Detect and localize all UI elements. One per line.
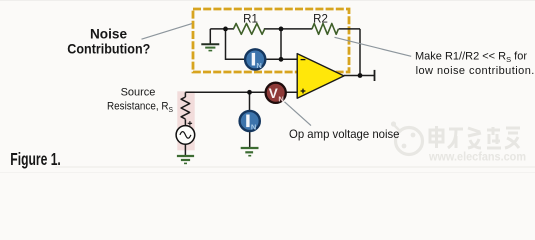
wire ground stub G1 xyxy=(209,29,211,44)
wire inverting branch left down to IN xyxy=(226,29,247,59)
wire non-inverting rail xyxy=(185,91,297,93)
leader line to box xyxy=(142,24,193,40)
ground under source xyxy=(177,156,194,163)
svg-text:Resistance, RS: Resistance, RS xyxy=(107,101,173,115)
wire R2 right to feedback corner xyxy=(339,28,360,30)
wire Rs bottom lead xyxy=(184,119,186,126)
wire IN2 branch down xyxy=(249,92,251,111)
svg-text:Make R1//R2 << RS for: Make R1//R2 << RS for xyxy=(415,51,527,65)
dashed annotation box xyxy=(193,9,349,72)
node junction dots xyxy=(223,27,362,95)
svg-text:N: N xyxy=(251,123,256,132)
svg-text:Figure 1.: Figure 1. xyxy=(10,149,61,169)
wire source ground stub xyxy=(184,144,186,156)
ground G1 xyxy=(201,44,219,50)
svg-text:R2: R2 xyxy=(313,14,328,26)
watermark chinese title 电子发烧友 xyxy=(430,126,520,148)
wire IN2 ground stub xyxy=(249,131,251,148)
watermark logo circle xyxy=(394,125,423,155)
wire op-amp output xyxy=(344,75,375,77)
wire R1 right to R2 left xyxy=(264,28,312,30)
node J2 between R1 R2 xyxy=(279,27,284,32)
source VS circle xyxy=(176,126,195,145)
svg-text:low noise contribution.: low noise contribution. xyxy=(416,65,535,77)
svg-text:R1: R1 xyxy=(243,14,258,26)
wire R1-R2 node down to inverting input xyxy=(280,29,282,59)
current noise source IN (inverting input) xyxy=(245,49,265,70)
source plus polarity xyxy=(188,121,192,125)
op-amp plus pin label xyxy=(301,89,306,94)
wire IN to inverting input xyxy=(265,58,298,60)
ground under In xyxy=(241,148,259,156)
node J3 inverting input xyxy=(279,57,284,62)
leader line to VN note xyxy=(285,102,312,126)
resistor R2 xyxy=(312,24,338,35)
node J1 inverting rail left xyxy=(223,27,228,32)
resistor Rs xyxy=(181,97,190,119)
svg-text:www.elecfans.com: www.elecfans.com xyxy=(428,150,526,164)
op-amp U1 xyxy=(297,54,344,99)
output terminal bar xyxy=(374,70,376,81)
svg-text:V: V xyxy=(269,86,278,101)
node J4 non-inverting rail xyxy=(247,90,252,95)
svg-text:Op amp voltage noise: Op amp voltage noise xyxy=(289,127,400,141)
resistor R1 xyxy=(234,24,265,35)
svg-text:N: N xyxy=(278,94,283,103)
svg-text:Noise: Noise xyxy=(90,25,127,41)
wire feedback drop xyxy=(359,29,361,76)
wire Rs top lead xyxy=(184,92,186,97)
svg-text:Contribution?: Contribution? xyxy=(67,41,150,57)
voltage noise source VN xyxy=(266,83,286,104)
node J5 output xyxy=(358,73,363,78)
pink highlight band behind Rs and source xyxy=(177,91,194,150)
svg-text:Source: Source xyxy=(121,86,156,98)
wire ground to R1 left xyxy=(210,28,234,30)
svg-text:N: N xyxy=(256,61,261,70)
current noise source IN2 (source branch) xyxy=(240,111,260,132)
op-amp minus pin label xyxy=(301,59,306,61)
faint scan streak xyxy=(55,166,535,168)
leader line to R2 note xyxy=(335,37,412,56)
source sine symbol xyxy=(180,132,191,139)
watermark logo dots xyxy=(391,121,416,148)
